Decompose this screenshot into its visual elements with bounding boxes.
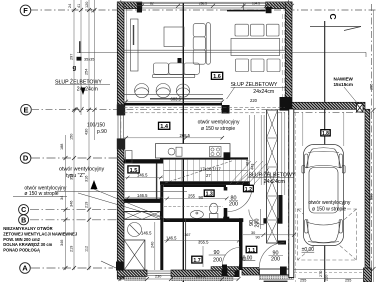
svg-text:24x24cm: 24x24cm (264, 179, 285, 185)
svg-text:230: 230 (155, 275, 161, 279)
svg-text:PONAD PODŁOGĄ: PONAD PODŁOGĄ (3, 248, 40, 253)
svg-text:367: 367 (185, 233, 191, 237)
svg-text:1.2: 1.2 (245, 187, 252, 193)
svg-text:146.5: 146.5 (137, 193, 148, 198)
svg-text:24x24cm: 24x24cm (253, 89, 274, 95)
svg-text:255: 255 (300, 279, 306, 282)
svg-text:200: 200 (271, 257, 280, 263)
svg-text:DOLNA KRAWĘDŹ 30 cm: DOLNA KRAWĘDŹ 30 cm (3, 242, 52, 247)
svg-text:270: 270 (319, 271, 323, 277)
svg-text:35x35: 35x35 (84, 58, 94, 62)
svg-text:15x15cm: 15x15cm (334, 82, 353, 87)
svg-text:1.6: 1.6 (213, 74, 221, 80)
svg-text:ø 150 w stropie: ø 150 w stropie (312, 207, 346, 213)
svg-text:355.5: 355.5 (198, 240, 209, 245)
svg-text:430: 430 (85, 129, 89, 135)
svg-text:E: E (23, 105, 28, 114)
svg-text:346: 346 (60, 240, 64, 246)
svg-text:268.5: 268.5 (180, 133, 191, 138)
svg-text:297: 297 (70, 54, 74, 60)
svg-text:34: 34 (60, 196, 64, 200)
svg-text:200: 200 (255, 219, 261, 228)
svg-text:90: 90 (199, 195, 204, 200)
svg-text:146.5: 146.5 (141, 231, 152, 236)
svg-text:C: C (21, 207, 26, 214)
svg-text:24: 24 (68, 4, 72, 8)
svg-text:27: 27 (206, 173, 211, 178)
svg-text:112: 112 (85, 246, 89, 252)
svg-text:F: F (23, 6, 28, 15)
svg-text:C: C (328, 14, 338, 20)
svg-text:346: 346 (70, 201, 74, 207)
svg-text:314: 314 (70, 174, 74, 180)
svg-text:603.5: 603.5 (171, 96, 182, 101)
svg-text:150: 150 (70, 134, 74, 140)
svg-text:g: g (73, 66, 77, 72)
svg-text:100/150: 100/150 (87, 122, 105, 128)
svg-text:254: 254 (85, 69, 89, 75)
svg-text:1.8: 1.8 (322, 131, 329, 137)
svg-text:1.1: 1.1 (248, 248, 255, 254)
svg-text:D: D (23, 154, 29, 163)
svg-text:219: 219 (85, 202, 89, 208)
svg-text:A: A (22, 264, 28, 273)
svg-text:200: 200 (213, 257, 222, 263)
svg-text:NAWIEW: NAWIEW (334, 77, 354, 82)
svg-text:255: 255 (345, 279, 351, 282)
svg-text:240: 240 (151, 242, 155, 248)
svg-text:90: 90 (256, 236, 260, 240)
svg-text:30: 30 (251, 231, 255, 235)
svg-text:219: 219 (70, 246, 74, 252)
svg-text:146.5: 146.5 (137, 173, 148, 178)
svg-text:otwór wentylocyjny: otwór wentylocyjny (59, 167, 105, 173)
svg-text:otwór wentylocyjny: otwór wentylocyjny (308, 200, 350, 206)
svg-text:220: 220 (250, 98, 258, 103)
svg-text:B: B (21, 217, 26, 224)
svg-text:255: 255 (188, 193, 196, 198)
svg-text:NIEZAMYKALNY OTWÓR: NIEZAMYKALNY OTWÓR (3, 226, 52, 231)
svg-text:17x18.1/17: 17x18.1/17 (200, 167, 221, 172)
svg-text:1.3: 1.3 (206, 192, 213, 198)
svg-text:90: 90 (214, 250, 220, 256)
svg-text:146.5: 146.5 (166, 236, 177, 241)
svg-text:467: 467 (245, 160, 249, 166)
svg-text:590: 590 (370, 194, 374, 200)
svg-text:253.5: 253.5 (196, 275, 206, 279)
svg-text:200: 200 (229, 201, 238, 207)
svg-text:ZETOWEJ WENTYLACJI NAWIEWNEJ: ZETOWEJ WENTYLACJI NAWIEWNEJ (3, 231, 77, 236)
svg-text:1.7: 1.7 (193, 258, 200, 264)
svg-text:41: 41 (77, 4, 81, 8)
svg-text:ø 150 w stropie: ø 150 w stropie (201, 126, 235, 132)
svg-text:220: 220 (325, 275, 329, 281)
svg-text:443: 443 (251, 164, 255, 170)
svg-text:12: 12 (91, 9, 95, 13)
svg-text:316: 316 (85, 176, 89, 182)
svg-text:120: 120 (85, 2, 89, 8)
svg-text:otwór wentylocyjny: otwór wentylocyjny (198, 120, 240, 126)
svg-text:188: 188 (60, 144, 64, 150)
svg-text:p.90: p.90 (97, 129, 107, 135)
svg-text:1.4: 1.4 (160, 124, 169, 130)
svg-text:255: 255 (370, 84, 374, 90)
